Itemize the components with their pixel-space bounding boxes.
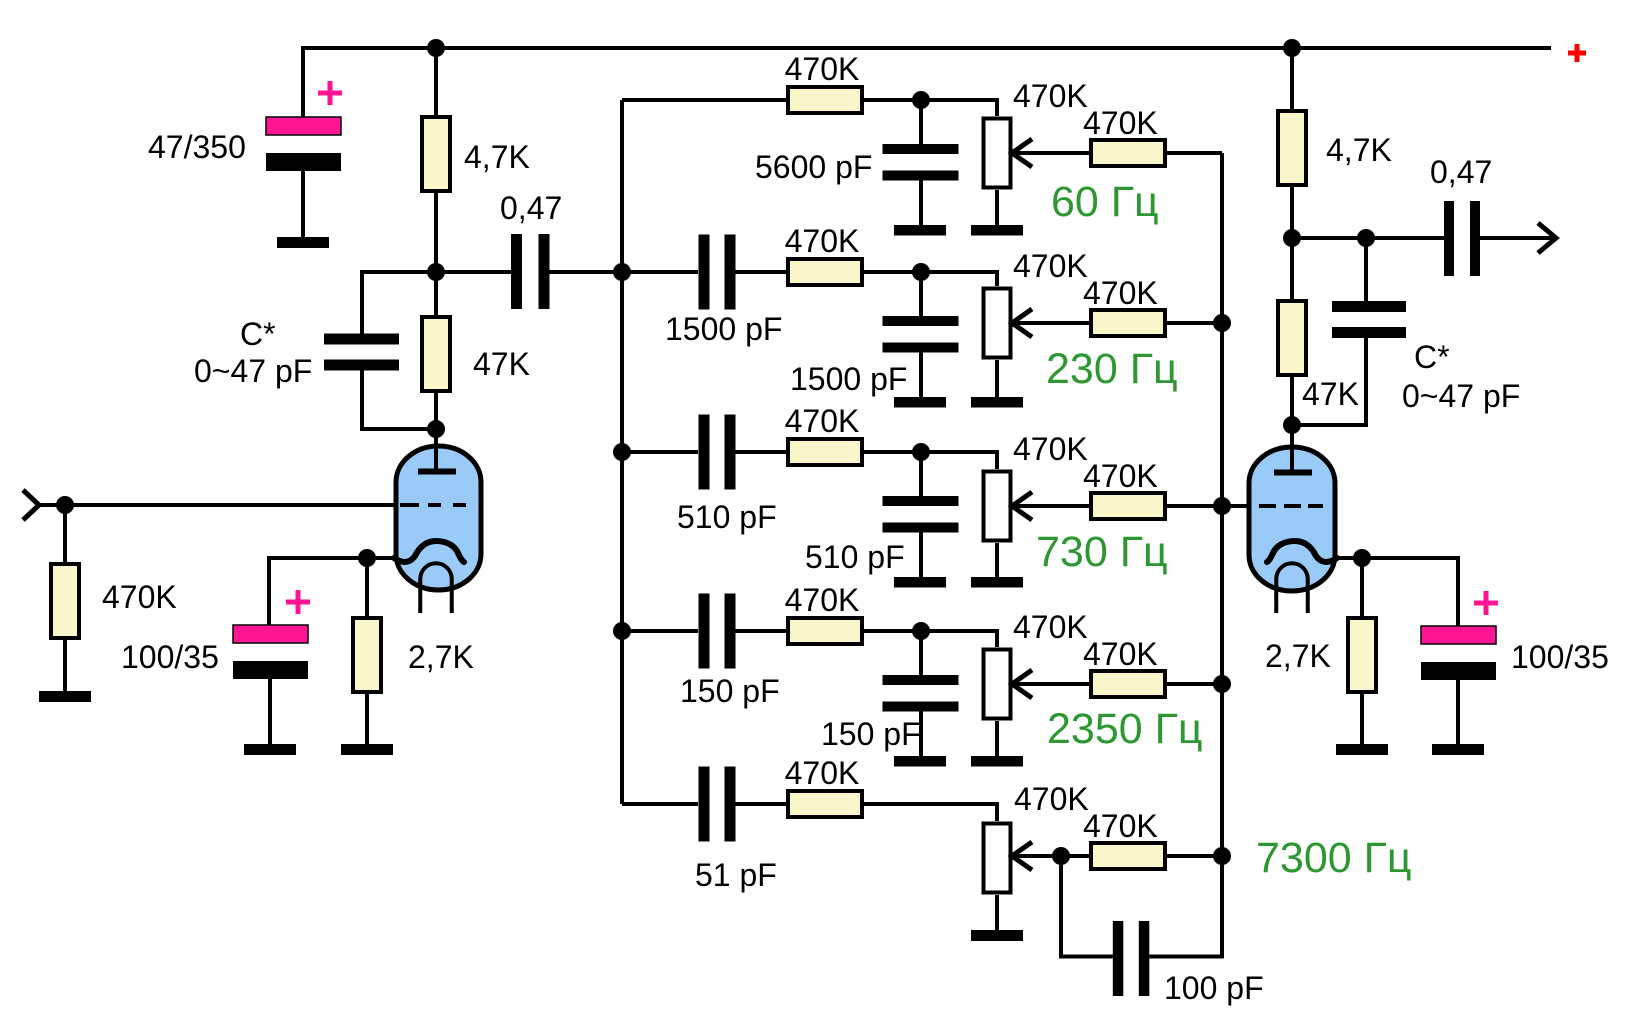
node bus band3 xyxy=(613,443,631,461)
svg-text:510 pF: 510 pF xyxy=(677,499,777,535)
node V+ left xyxy=(427,39,445,57)
svg-text:0,47: 0,47 xyxy=(500,190,562,226)
resistor 470K series band1 xyxy=(788,87,862,113)
ground left 100/35 xyxy=(244,744,296,755)
resistor 470K series band4 xyxy=(788,618,862,644)
wire wiper band2 xyxy=(1012,321,1089,325)
wire rbus to grid xyxy=(1222,504,1251,508)
svg-text:470K: 470K xyxy=(102,579,177,615)
wire band4 to pot xyxy=(864,631,997,647)
wire band1 to rbus xyxy=(1167,151,1222,155)
node rbus band3 xyxy=(1213,497,1231,515)
potentiometer 470K band4 xyxy=(984,650,1033,759)
wire band1 to pot xyxy=(864,100,997,116)
node left grid xyxy=(427,420,445,438)
svg-text:1500 pF: 1500 pF xyxy=(665,311,782,347)
svg-text:470K: 470K xyxy=(785,755,860,791)
node right anode xyxy=(1283,229,1301,247)
resistor 470K wiper band3 xyxy=(1091,493,1165,519)
resistor 2,7K right cathode xyxy=(1348,558,1376,744)
ground cap band4 xyxy=(894,756,946,767)
svg-text:2350 Гц: 2350 Гц xyxy=(1047,705,1203,753)
svg-text:47/350: 47/350 xyxy=(148,129,246,165)
resistor 470K series band3 xyxy=(788,439,862,465)
node input xyxy=(56,496,74,514)
ground pot band1 xyxy=(971,225,1023,236)
wire band5 to pot xyxy=(864,804,997,821)
capacitor 51 pF series band5 xyxy=(622,767,786,842)
resistor 470K grid leak input xyxy=(51,505,79,691)
ground cap band2 xyxy=(894,397,946,408)
resistor 470K series band2 xyxy=(788,259,862,285)
wire band3 to pot xyxy=(864,452,997,469)
wire left EQ bus xyxy=(620,100,624,804)
svg-text:0,47: 0,47 xyxy=(1430,154,1492,190)
potentiometer 470K band3 xyxy=(984,472,1033,580)
node rbus band4 xyxy=(1213,675,1231,693)
ground cap band3 xyxy=(894,577,946,588)
triode V2 right xyxy=(1249,425,1337,613)
resistor 4,7K right anode load xyxy=(1278,48,1306,238)
resistor 470K wiper band1 xyxy=(1091,140,1165,166)
potentiometer 470K band5 xyxy=(984,824,1033,931)
node wiper band5 xyxy=(1052,847,1070,865)
svg-text:470K: 470K xyxy=(1013,431,1088,467)
node band2 xyxy=(912,263,930,281)
resistor 470K wiper band4 xyxy=(1091,671,1165,697)
wire V+ rail xyxy=(303,48,1551,120)
ground right 2,7K xyxy=(1336,744,1388,755)
wire right anode row xyxy=(1292,236,1444,240)
node left anode xyxy=(427,263,445,281)
node rbus band5 xyxy=(1213,847,1231,865)
capacitor C* 0~47 pF right xyxy=(1292,238,1406,425)
node right cathode xyxy=(1353,549,1371,567)
wire wiper band4 xyxy=(1012,682,1089,686)
svg-text:470K: 470K xyxy=(1013,248,1088,284)
svg-text:470K: 470K xyxy=(785,51,860,87)
resistor 47K right xyxy=(1278,238,1306,425)
potentiometer 470K band2 xyxy=(984,289,1033,400)
wire band1 input xyxy=(622,98,786,102)
capacitor 0,47 output xyxy=(1444,201,1553,276)
node right Cstar top xyxy=(1357,229,1375,247)
ground pot band2 xyxy=(971,397,1023,408)
node band3 xyxy=(912,443,930,461)
svg-text:5600 pF: 5600 pF xyxy=(755,149,872,185)
svg-text:150 pF: 150 pF xyxy=(680,673,780,709)
capacitor 100/35 right bypass xyxy=(1421,591,1498,744)
resistor 2,7K left cathode xyxy=(353,558,381,744)
svg-text:100/35: 100/35 xyxy=(1511,639,1609,675)
node bus band4 xyxy=(613,622,631,640)
ground pot band4 xyxy=(971,756,1023,767)
capacitor 150 pF series band4 xyxy=(622,594,786,669)
wire band5 to rbus xyxy=(1167,854,1222,858)
wire cathode left xyxy=(269,558,396,625)
svg-text:470K: 470K xyxy=(785,223,860,259)
svg-text:1500 pF: 1500 pF xyxy=(790,361,907,397)
svg-text:470K: 470K xyxy=(1083,275,1158,311)
wire band2 to pot xyxy=(864,272,997,286)
svg-text:470K: 470K xyxy=(1083,636,1158,672)
resistor 4,7K left anode load xyxy=(422,48,450,272)
svg-text:470K: 470K xyxy=(1013,609,1088,645)
wire band4 to rbus xyxy=(1167,682,1222,686)
svg-text:470K: 470K xyxy=(1083,105,1158,141)
svg-text:0~47 pF: 0~47 pF xyxy=(1402,378,1520,414)
svg-text:51 pF: 51 pF xyxy=(695,857,777,893)
svg-text:470K: 470K xyxy=(1083,458,1158,494)
capacitor 100/35 left bypass xyxy=(233,590,310,744)
capacitor 5600 pF shunt band1 xyxy=(883,100,959,225)
svg-text:47K: 47K xyxy=(473,346,530,382)
potentiometer 470K band1 xyxy=(984,119,1033,228)
output arrow xyxy=(1538,223,1556,253)
capacitor 150 pF shunt band4 xyxy=(883,631,959,756)
svg-text:7300 Гц: 7300 Гц xyxy=(1256,834,1412,882)
capacitor 100 pF band5 xyxy=(1061,856,1222,996)
svg-text:C*: C* xyxy=(1414,339,1450,375)
red + power terminal xyxy=(1568,44,1586,62)
ground right 100/35 xyxy=(1432,744,1484,755)
capacitor 510 pF shunt band3 xyxy=(883,452,959,577)
capacitor 47/350 electrolytic xyxy=(266,81,342,237)
ground pot band5 xyxy=(971,930,1023,941)
wire right EQ bus xyxy=(1220,153,1224,959)
capacitor 510 pF series band3 xyxy=(622,415,786,490)
resistor 470K wiper band5 xyxy=(1091,843,1165,869)
svg-text:730 Гц: 730 Гц xyxy=(1036,528,1168,576)
svg-text:150 pF: 150 pF xyxy=(821,716,921,752)
capacitor 0,47 coupling left xyxy=(436,234,622,309)
capacitor 1500 pF shunt band2 xyxy=(883,272,959,397)
triode V1 left xyxy=(394,429,481,613)
svg-text:100 pF: 100 pF xyxy=(1164,970,1264,1006)
ground pot band3 xyxy=(971,577,1023,588)
capacitor C* 0~47 pF left feedback xyxy=(324,272,436,429)
svg-text:470K: 470K xyxy=(785,403,860,439)
ground left 2,7K xyxy=(341,744,393,755)
svg-text:47K: 47K xyxy=(1302,376,1359,412)
node rbus band2 xyxy=(1213,314,1231,332)
wire wiper band1 xyxy=(1012,151,1089,155)
svg-text:C*: C* xyxy=(240,316,276,352)
svg-text:60 Гц: 60 Гц xyxy=(1051,178,1159,226)
node bus band2 xyxy=(613,263,631,281)
wire cathode right xyxy=(1335,558,1458,626)
svg-text:470K: 470K xyxy=(1083,808,1158,844)
node right grid bias xyxy=(1283,416,1301,434)
wire band2 to rbus xyxy=(1167,321,1222,325)
svg-text:4,7K: 4,7K xyxy=(1326,132,1392,168)
capacitor 1500 pF series band2 xyxy=(622,235,786,310)
svg-text:4,7K: 4,7K xyxy=(464,139,530,175)
resistor 47K left xyxy=(422,272,450,429)
resistor 470K series band5 xyxy=(788,791,862,817)
svg-text:0~47 pF: 0~47 pF xyxy=(194,353,312,389)
svg-text:470K: 470K xyxy=(785,582,860,618)
ground input xyxy=(39,691,91,702)
svg-text:230 Гц: 230 Гц xyxy=(1046,345,1178,393)
input arrow xyxy=(23,490,39,520)
wire wiper band3 xyxy=(1012,504,1089,508)
svg-text:2,7K: 2,7K xyxy=(408,639,474,675)
node V+ right xyxy=(1283,39,1301,57)
node band1 xyxy=(912,91,930,109)
svg-text:470K: 470K xyxy=(1014,781,1089,817)
ground cap band1 xyxy=(894,225,946,236)
svg-text:510 pF: 510 pF xyxy=(805,539,905,575)
node left cathode xyxy=(358,549,376,567)
svg-text:470K: 470K xyxy=(1013,78,1088,114)
svg-text:100/35: 100/35 xyxy=(121,639,219,675)
node band4 xyxy=(912,622,930,640)
ground 47/350 xyxy=(277,237,329,248)
resistor 470K wiper band2 xyxy=(1091,310,1165,336)
wire wiper band5 xyxy=(1012,854,1089,858)
wire input to grid xyxy=(39,503,398,507)
svg-text:2,7K: 2,7K xyxy=(1265,638,1331,674)
wire band3 to rbus xyxy=(1167,504,1222,508)
